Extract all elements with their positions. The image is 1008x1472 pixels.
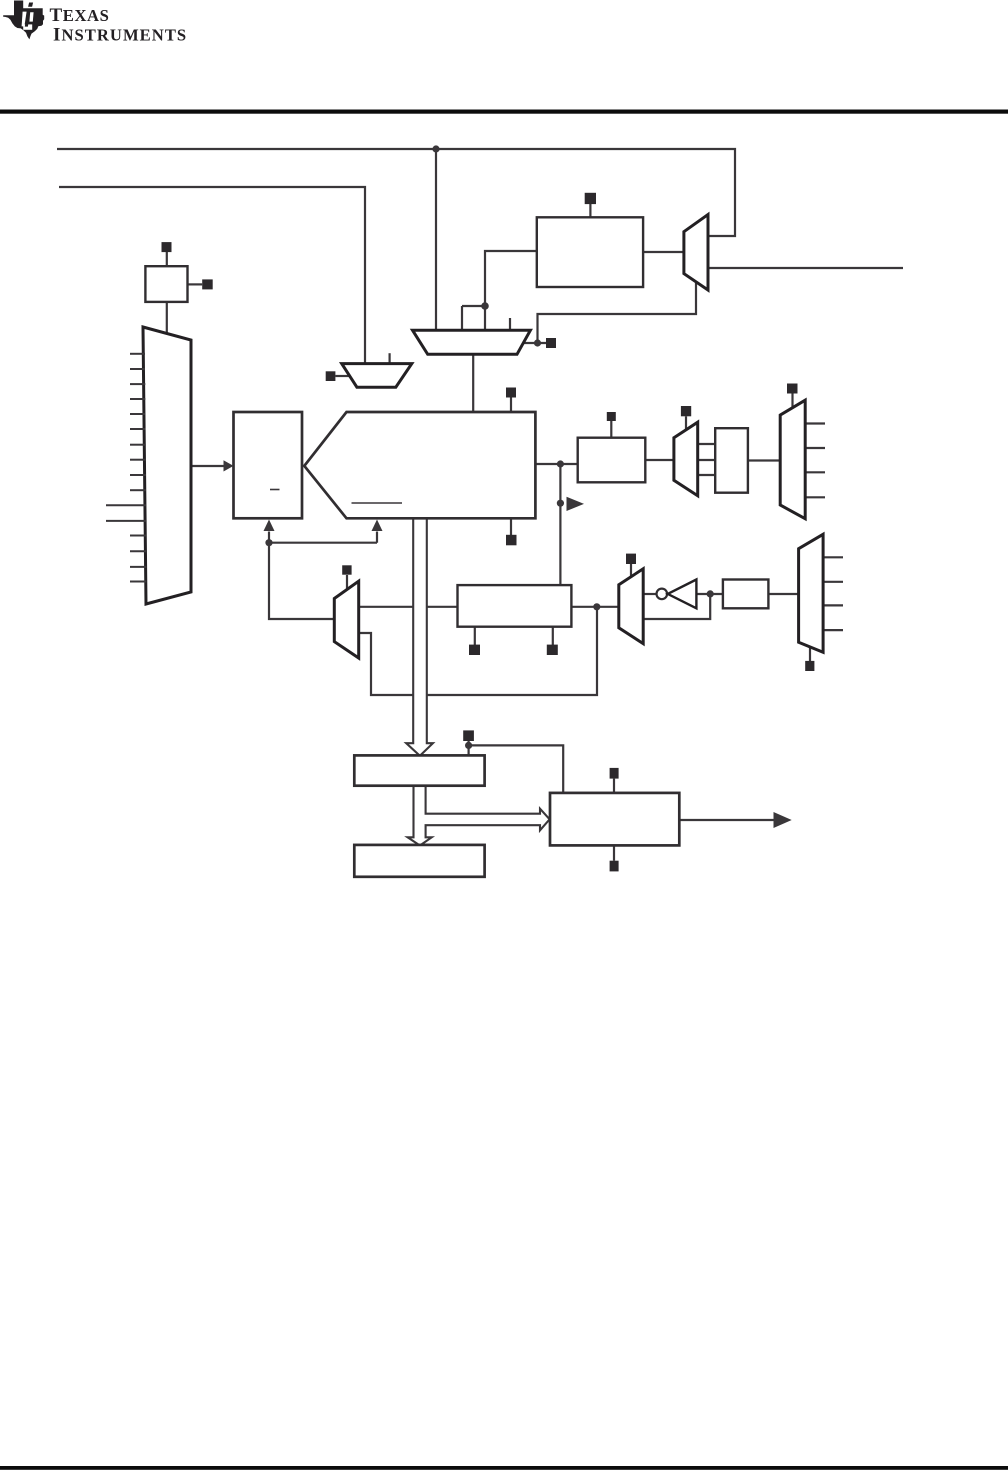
junction big top mux tip [534,339,541,346]
pin square right of left small box [202,279,213,289]
tall mux input tick 13 [130,566,146,568]
tall mux input long line 1 [106,504,146,506]
wire capture feedback loop [359,607,597,695]
tall mux input tick 10 [130,489,146,491]
pin square above box1 [463,730,474,741]
underline inside timer block [352,502,403,504]
small center mux [342,364,412,388]
wire mid mux to pipeline box pin3 [698,474,716,476]
inverter triangle [668,580,697,609]
pin square at big top mux tip [546,338,556,348]
tall mux input tick 7 [130,444,146,446]
hollow bus arrow timer to box1 [406,518,433,756]
tall mux input tick 8 [130,459,146,461]
wire sync box to demux2 [768,593,798,595]
wire vertical from bus1 junction to big top mux [435,149,437,330]
tall mux input tick 2 [130,368,145,370]
wire tall mux output to divider [191,465,226,467]
pin square above lower-left mux [342,565,351,574]
wire box1 junction to right box top [469,745,564,793]
pin square below demux2 [805,661,814,671]
wire junction down to lower-left mux [269,543,334,619]
arrowhead into timer block bottom [372,520,383,532]
wire capture box output to lower-right mux [571,606,618,608]
tall mux input long line 2 [106,520,146,522]
wire lower-left mux output to capture box [359,606,458,608]
pin square above top register box [585,193,596,204]
junction capture output [593,603,600,610]
wire select notch on big top mux [462,306,485,330]
sync latch box [723,580,769,609]
tall mux input tick 14 [130,581,146,583]
pin square below timer block [506,535,517,546]
demux2 [799,534,824,652]
pin square above lower-right mux [626,554,636,564]
pin square above mid mux [681,406,691,416]
inverter bubble [657,589,668,600]
comparator box1 [354,755,484,785]
wire stub square above lower-left mux [346,575,348,590]
wire inverter bypass feedback [643,594,710,619]
wire big top mux tip to square [523,342,546,344]
wire left small box down to tall mux [166,302,168,334]
junction inverter output [707,590,714,597]
wire stub square above left small box [166,252,168,266]
capture box [458,585,572,627]
pipeline narrow box [715,428,748,493]
pin square below capture box left [469,645,480,655]
tall input mux left [143,327,191,604]
input divider box [234,412,303,518]
junction mux select notch [481,302,489,310]
arrowhead equ signal [567,497,585,511]
junction bus1 [432,145,439,152]
wire demux2 output stub 3 [823,604,843,606]
wire demux1 output stub 4 [805,496,825,498]
junction timer output lower [557,500,564,507]
wire stub square above timer block [510,398,512,413]
wire timer block output to ccr box [535,463,577,465]
big top mux [413,330,531,354]
wire stub square below capture box left [474,627,476,645]
wire stub square above top box [589,204,591,218]
wire demux1 output stub 3 [805,471,825,473]
wire stub square above demux1 [791,393,793,408]
pin square below right box [610,861,619,872]
wire stub square below timer block [510,518,512,535]
wire ccr box to mid mux [645,459,674,461]
wire top bus 2 [59,187,365,364]
register box top (capture input select) [537,217,643,287]
pin square above left small box [162,242,172,252]
wire stub square above ccr box [610,420,612,438]
wire square above box1 into box1 [468,741,470,755]
tall mux input tick 6 [130,428,146,430]
wire stub square above lower-right mux [630,564,632,577]
wire arrow up into divider bottom [268,532,270,543]
arrowhead right box output [774,812,792,828]
lower-right mux [619,569,643,644]
mid mux [674,422,698,496]
arrowhead into divider bottom [264,520,275,532]
junction timer output upper [557,460,564,467]
wire demux2 output stub 2 [823,581,843,583]
hollow bus arrow box1 to box2 and right box [408,785,550,846]
wire right small mux bottom loop [538,283,697,343]
wire demux2 bottom stub [809,647,811,661]
wire demux2 output stub 1 [823,556,843,558]
pin square left of small center mux [326,371,336,381]
wire left small box to right square [188,283,203,285]
wire top box input from big top mux select [485,251,537,330]
ccr compare box [578,438,646,483]
wire junction to big block bottom arrow [269,532,377,543]
demux1 [780,400,805,519]
pin square above demux1 [787,384,798,394]
wire mid mux to pipeline box pin2 [698,459,716,461]
wire stub square below capture box right [552,627,554,645]
wire top box output to right small mux [643,251,684,253]
tall mux input tick 11 [130,535,146,537]
wire pipeline box to demux1 [748,459,780,461]
tall mux input tick 9 [130,474,146,476]
wire stub input big top mux [509,318,511,330]
wire junction down to capture box top [559,464,561,585]
wire mid mux to pipeline box pin1 [698,443,716,445]
dash inside divider box [270,489,280,491]
wire lower-right mux to inverter [643,593,656,595]
tall mux input tick 5 [130,413,146,415]
output unit box [550,793,679,846]
wire stub square above right box [613,779,615,793]
junction above box1 [465,742,472,749]
tall mux input tick 4 [130,398,145,400]
wire stub square above mid mux [685,416,687,430]
wire demux2 output stub 4 [823,629,843,631]
comparator box2 [354,845,484,877]
lower-left mux [334,581,358,658]
header rule [0,110,1008,114]
wire top bus 1 [57,149,735,236]
wire right box output [679,819,774,821]
tall mux input tick 3 [130,383,145,385]
right small mux [684,215,708,291]
footer rule [0,1466,1008,1470]
wire square to small center mux [335,375,350,377]
left small config box [145,266,187,302]
wire demux1 output stub 2 [805,447,825,449]
wire stub square below right box [613,845,615,860]
timer main block pentagon [304,412,535,518]
tall mux input tick 1 [130,353,145,355]
junction divider feedback [265,539,272,546]
TI logo Texas-state mark [3,1,44,40]
pin square above right box [610,768,619,779]
svg-text:TEXAS: TEXAS [50,5,110,26]
svg-text:INSTRUMENTS: INSTRUMENTS [53,24,187,45]
pin square below capture box right [547,645,558,655]
pin square above ccr box [607,412,616,421]
wire demux1 output stub 1 [805,422,825,424]
tall mux input tick 12 [130,550,146,552]
wire right small mux long output [708,267,903,269]
arrowhead into divider left [224,460,234,471]
wire stub input small center mux [389,353,391,363]
pin square above timer block [506,388,516,398]
wire inverter output to sync box [696,593,723,595]
wire big top mux output down to timer block [472,354,474,412]
